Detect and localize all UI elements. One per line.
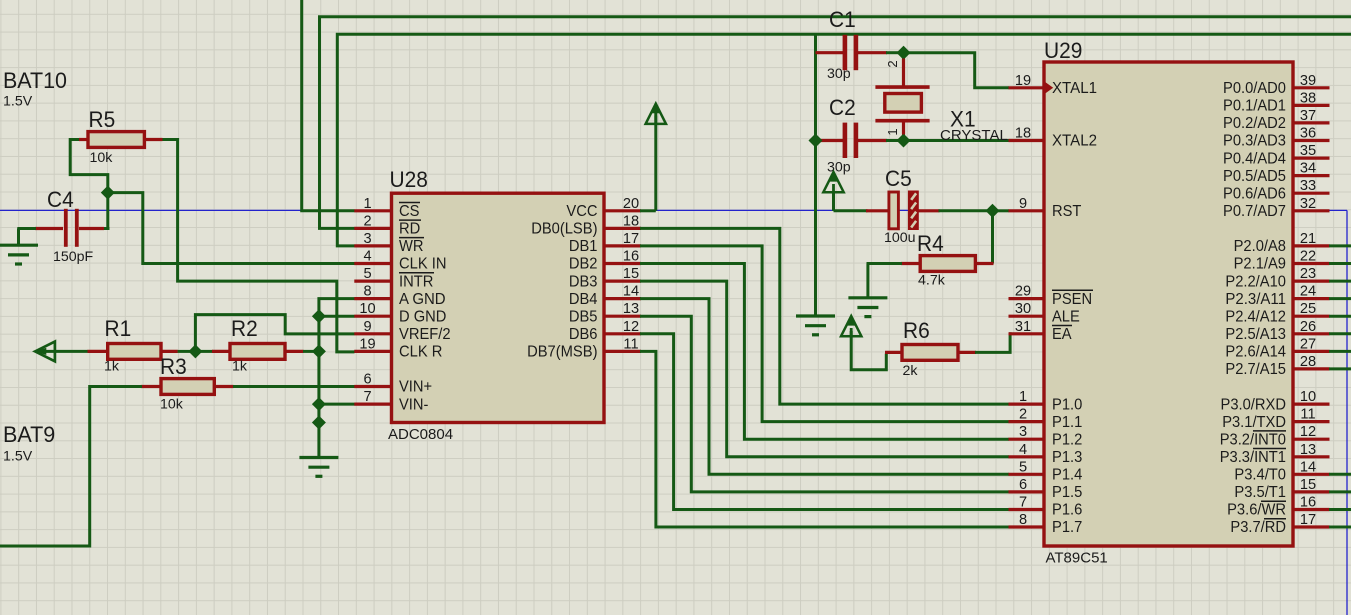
svg-text:U29: U29 <box>1044 38 1082 63</box>
U28 left pin names <box>399 203 451 414</box>
label C4 value 150pF <box>53 249 94 265</box>
svg-text:BAT10: BAT10 <box>3 68 67 93</box>
svg-text:P1.4: P1.4 <box>1052 467 1083 484</box>
svg-text:17: 17 <box>1300 512 1316 528</box>
svg-text:13: 13 <box>623 301 639 317</box>
wire C5 right to node RST <box>939 209 989 212</box>
svg-text:DB6: DB6 <box>569 326 598 343</box>
resistor R2 <box>212 344 304 360</box>
svg-text:P0.6/AD6: P0.6/AD6 <box>1223 185 1286 202</box>
svg-text:10k: 10k <box>160 397 184 413</box>
U28 right pin stubs <box>604 211 641 352</box>
svg-text:VCC: VCC <box>566 203 597 220</box>
svg-text:AT89C51: AT89C51 <box>1046 550 1108 567</box>
svg-text:3: 3 <box>363 231 371 247</box>
label C2 value 30p <box>827 160 851 176</box>
wire DB2 from U28 to U29 P1.2 <box>640 264 1009 440</box>
node D GND junction dot (318.9,316.2) <box>313 310 326 323</box>
svg-text:P1.3: P1.3 <box>1052 449 1082 466</box>
svg-text:DB3: DB3 <box>569 273 598 290</box>
svg-text:30p: 30p <box>827 160 851 176</box>
svg-text:15: 15 <box>1300 477 1316 493</box>
U29 right pin stubs <box>1293 88 1330 527</box>
svg-text:32: 32 <box>1300 196 1316 212</box>
crystal X1 <box>875 59 929 135</box>
svg-text:1: 1 <box>885 128 900 135</box>
capacitor C5 (electrolytic) <box>866 191 940 231</box>
resistor R4 <box>901 256 994 272</box>
label C1 value 30p <box>827 66 851 82</box>
label U29 part AT89C51 <box>1046 550 1108 567</box>
label BAT10 value 1.5V <box>3 94 33 110</box>
svg-text:8: 8 <box>363 284 371 300</box>
wire C2 right to node X1 (crystal bottom) <box>886 139 899 142</box>
svg-text:1k: 1k <box>232 359 248 375</box>
power arrow VCC (near U28 pin 20) <box>646 103 666 124</box>
svg-text:8: 8 <box>1019 512 1027 528</box>
ground for C1/C2 rail <box>796 316 835 335</box>
svg-text:DB0(LSB): DB0(LSB) <box>531 221 597 238</box>
wire crystal bottom pin stub <box>902 133 905 141</box>
svg-text:39: 39 <box>1300 73 1316 89</box>
svg-text:12: 12 <box>623 319 639 335</box>
IC U29 AT89C51 body <box>1044 62 1293 546</box>
svg-text:14: 14 <box>623 284 639 300</box>
svg-text:P3.4/T0: P3.4/T0 <box>1234 467 1286 484</box>
svg-text:DB5: DB5 <box>569 308 598 325</box>
svg-text:P3.7/RD: P3.7/RD <box>1230 519 1286 536</box>
svg-text:XTAL1: XTAL1 <box>1052 80 1097 97</box>
svg-text:4.7k: 4.7k <box>918 273 946 289</box>
svg-text:28: 28 <box>1300 354 1316 370</box>
wire DB4 from U28 to U29 P1.4 <box>640 299 1009 475</box>
capacitor C4 <box>35 209 104 247</box>
U29 pin 19 XTAL1 clock marker <box>1046 82 1054 93</box>
svg-text:20: 20 <box>623 196 639 212</box>
svg-text:ALE: ALE <box>1052 308 1080 325</box>
wire DB7 from U28 to U29 P1.7 <box>640 351 1009 527</box>
wire DB1 from U28 to U29 P1.1 <box>640 246 1009 422</box>
svg-text:DB1: DB1 <box>569 238 598 255</box>
IC U28 ADC0804 body <box>392 193 605 422</box>
ground for U28 rail <box>299 458 338 477</box>
svg-text:R5: R5 <box>89 107 116 132</box>
svg-text:P0.0/AD0: P0.0/AD0 <box>1223 80 1286 97</box>
capacitor C2 <box>820 123 887 158</box>
svg-text:30p: 30p <box>827 66 851 82</box>
svg-text:35: 35 <box>1300 143 1316 159</box>
wire node RST down to R4 right <box>991 214 994 264</box>
svg-text:31: 31 <box>1015 319 1031 335</box>
svg-text:10: 10 <box>1300 389 1316 405</box>
capacitor C1 <box>816 35 888 70</box>
svg-text:P0.7/AD7: P0.7/AD7 <box>1223 203 1286 220</box>
svg-text:R4: R4 <box>917 231 944 256</box>
wire node X2 to U29 pin 19 XTAL1 <box>908 53 1009 88</box>
svg-text:19: 19 <box>1015 73 1031 89</box>
svg-text:R2: R2 <box>231 316 258 341</box>
node B junction dot (195.4,351.9) <box>189 345 202 358</box>
resistor R6 <box>885 345 976 361</box>
U28 left pin stubs <box>354 211 391 404</box>
wire R6 right to U29 pin 31 EA <box>975 334 1010 353</box>
svg-text:4: 4 <box>1019 442 1027 458</box>
terminal input arrow (left) <box>35 342 88 362</box>
svg-text:18: 18 <box>1015 126 1031 142</box>
svg-text:1: 1 <box>1019 389 1027 405</box>
label BAT9 value 1.5V <box>3 449 33 465</box>
label C5 reference <box>885 166 912 191</box>
svg-text:1.5V: 1.5V <box>3 94 33 110</box>
node R2/rail junction dot (318.9,351.9) <box>313 345 326 358</box>
svg-text:P3.6/WR: P3.6/WR <box>1227 502 1286 519</box>
svg-text:100u: 100u <box>884 230 916 246</box>
node VIN- junction dot (318.9,404.1) <box>313 398 326 411</box>
svg-text:P1.0: P1.0 <box>1052 396 1083 413</box>
svg-text:P2.6/A14: P2.6/A14 <box>1225 344 1286 361</box>
U29 left pin numbers <box>1015 73 1031 528</box>
label U28 reference <box>390 167 428 192</box>
label X1 reference <box>950 107 976 132</box>
resistor R5 <box>79 132 163 148</box>
wire node X1 to U29 pin 18 XTAL2 <box>908 139 1009 142</box>
svg-text:C5: C5 <box>885 166 912 191</box>
U28 right pin names <box>527 203 598 361</box>
svg-text:7: 7 <box>1019 495 1027 511</box>
svg-text:15: 15 <box>623 266 639 282</box>
svg-text:19: 19 <box>359 336 375 352</box>
svg-text:P3.0/RXD: P3.0/RXD <box>1221 396 1287 413</box>
svg-text:30: 30 <box>1015 301 1031 317</box>
label R5 reference <box>89 107 116 132</box>
svg-text:DB2: DB2 <box>569 256 598 273</box>
wire node B to U28 pin 9 VREF/2 <box>195 315 354 351</box>
svg-text:12: 12 <box>1300 424 1316 440</box>
label R3 reference <box>160 354 187 379</box>
wires P3.4-P3.7 to right edge <box>1329 474 1351 527</box>
svg-text:R1: R1 <box>105 316 132 341</box>
label R1 value 1k <box>104 359 120 375</box>
wire U28 pin 20 VCC to power arrow <box>640 108 656 211</box>
svg-text:VIN-: VIN- <box>399 396 428 413</box>
svg-text:24: 24 <box>1300 284 1316 300</box>
label U29 reference <box>1044 38 1082 63</box>
svg-text:P1.1: P1.1 <box>1052 414 1082 431</box>
U29 left pin names <box>1052 80 1097 536</box>
svg-text:10: 10 <box>359 301 375 317</box>
label C4 reference <box>47 187 74 212</box>
label X1 pin 1 <box>885 128 900 135</box>
svg-text:22: 22 <box>1300 249 1316 265</box>
wire DB0 from U28 to U29 P1.0 <box>640 228 1009 404</box>
node A junction dot (107.8,192.6) <box>102 186 115 199</box>
svg-text:BAT9: BAT9 <box>3 422 55 447</box>
svg-text:P2.3/A11: P2.3/A11 <box>1225 291 1286 308</box>
label R2 value 1k <box>232 359 248 375</box>
power arrow (EA pull-up) <box>841 316 861 337</box>
svg-text:3: 3 <box>1019 424 1027 440</box>
svg-text:D GND: D GND <box>399 308 446 325</box>
wires P2.0-P2.7 to right edge <box>1329 246 1351 369</box>
U29 right pin names <box>1220 80 1287 536</box>
label R1 reference <box>105 316 132 341</box>
svg-text:6: 6 <box>1019 477 1027 493</box>
svg-text:10k: 10k <box>90 150 114 166</box>
svg-text:150pF: 150pF <box>53 249 94 265</box>
wire R1 right to node B <box>178 350 191 353</box>
label BAT10 reference <box>3 68 67 93</box>
svg-text:34: 34 <box>1300 161 1316 177</box>
label R6 value 2k <box>903 363 919 379</box>
svg-text:P2.2/A10: P2.2/A10 <box>1225 273 1286 290</box>
svg-text:11: 11 <box>623 336 638 352</box>
svg-text:P3.1/TXD: P3.1/TXD <box>1222 414 1286 431</box>
svg-text:RD: RD <box>399 221 420 238</box>
label C5 value 100u <box>884 230 916 246</box>
label X1 pin 2 <box>885 60 900 67</box>
wire R3 right to U28 pin 6 VIN+ <box>233 385 355 388</box>
svg-text:INTR: INTR <box>399 273 433 290</box>
wire node RST to U29 pin 9 RST <box>997 209 1009 212</box>
svg-text:P0.4/AD4: P0.4/AD4 <box>1223 150 1286 167</box>
label X1 part CRYSTAL <box>940 127 1008 144</box>
svg-text:C2: C2 <box>829 95 856 120</box>
svg-text:11: 11 <box>1300 407 1315 423</box>
svg-text:38: 38 <box>1300 90 1316 106</box>
svg-text:P2.7/A15: P2.7/A15 <box>1225 361 1286 378</box>
label BAT9 reference <box>3 422 55 447</box>
node X1 junction dot (903.5,140.5) <box>897 134 910 147</box>
label C2 reference <box>829 95 856 120</box>
svg-text:1.5V: 1.5V <box>3 449 33 465</box>
svg-text:P0.5/AD5: P0.5/AD5 <box>1223 168 1286 185</box>
svg-text:VIN+: VIN+ <box>399 379 432 396</box>
svg-text:P0.3/AD3: P0.3/AD3 <box>1223 133 1286 150</box>
wire node B to R2 left <box>199 350 213 353</box>
svg-text:R3: R3 <box>160 354 187 379</box>
svg-text:P3.3/INT1: P3.3/INT1 <box>1220 449 1286 466</box>
svg-text:PSEN: PSEN <box>1052 291 1092 308</box>
wire DB3 from U28 to U29 P1.3 <box>640 281 1009 457</box>
wire node A down to C4 right plate <box>104 194 110 229</box>
svg-text:1k: 1k <box>104 359 120 375</box>
svg-text:4: 4 <box>363 249 371 265</box>
wire C4 left to ground <box>17 229 36 245</box>
resistor R3 <box>141 379 234 395</box>
svg-text:18: 18 <box>623 213 639 229</box>
wire R5 right terminal down to U28 pin 19 CLK R <box>161 140 355 352</box>
wire net CS: top edge down to U28 pin 1 <box>302 0 355 211</box>
svg-text:P3.5/T1: P3.5/T1 <box>1234 484 1286 501</box>
svg-text:A GND: A GND <box>399 291 446 308</box>
label R2 reference <box>231 316 258 341</box>
svg-text:C1: C1 <box>829 7 856 32</box>
svg-text:5: 5 <box>363 266 371 282</box>
svg-text:P0.2/AD2: P0.2/AD2 <box>1223 115 1286 132</box>
wire net RD: line A from U28 pin 2 to right edge <box>320 17 1351 229</box>
wire R2 right to ground rail <box>303 350 315 353</box>
label U28 part ADC0804 <box>388 426 453 443</box>
svg-text:5: 5 <box>1019 459 1027 475</box>
svg-text:2: 2 <box>885 60 900 67</box>
svg-text:P0.1/AD1: P0.1/AD1 <box>1223 98 1286 115</box>
label R5 value 10k <box>90 150 114 166</box>
wire R5 left terminal to node A <box>70 140 108 191</box>
wire DB5 from U28 to U29 P1.5 <box>640 316 1009 492</box>
svg-text:7: 7 <box>363 389 371 405</box>
svg-text:17: 17 <box>623 231 639 247</box>
node X2 junction dot (903.5,52.7) <box>897 46 910 59</box>
svg-text:2: 2 <box>363 213 371 229</box>
svg-text:WR: WR <box>399 238 424 255</box>
svg-text:R6: R6 <box>903 318 930 343</box>
svg-text:VREF/2: VREF/2 <box>399 326 451 343</box>
U29 left pin stubs <box>1009 88 1045 527</box>
svg-text:26: 26 <box>1300 319 1316 335</box>
svg-text:EA: EA <box>1052 326 1072 343</box>
svg-text:6: 6 <box>363 372 371 388</box>
label R4 value 4.7k <box>918 273 946 289</box>
wire R4 left to ground <box>867 264 903 298</box>
svg-text:2: 2 <box>1019 407 1027 423</box>
svg-text:CS: CS <box>399 203 420 220</box>
svg-text:37: 37 <box>1300 108 1316 124</box>
svg-text:RST: RST <box>1052 203 1082 220</box>
node C2-left junction dot (815.5,140.5) <box>809 134 822 147</box>
wire blue pending net (right segment with corner at far right) <box>656 210 1347 615</box>
svg-text:P3.2/INT0: P3.2/INT0 <box>1220 431 1287 448</box>
svg-text:XTAL2: XTAL2 <box>1052 133 1097 150</box>
wire node A to U28 pin 4 CLK IN <box>109 193 355 264</box>
U29 right pin numbers <box>1300 73 1316 528</box>
wire C1 right to node X2 (crystal top) <box>886 51 899 54</box>
svg-text:C4: C4 <box>47 187 74 212</box>
svg-text:14: 14 <box>1300 459 1316 475</box>
svg-text:9: 9 <box>1019 196 1027 212</box>
svg-text:ADC0804: ADC0804 <box>388 426 453 443</box>
wire EA arrow to R6 left <box>851 331 886 370</box>
svg-text:9: 9 <box>363 319 371 335</box>
svg-text:DB7(MSB): DB7(MSB) <box>527 344 597 361</box>
svg-text:P2.1/A9: P2.1/A9 <box>1234 256 1286 273</box>
resistor R1 <box>88 344 178 360</box>
svg-text:16: 16 <box>623 249 639 265</box>
wire DB6 from U28 to U29 P1.6 <box>640 334 1009 510</box>
svg-text:P1.2: P1.2 <box>1052 431 1082 448</box>
U28 right pin numbers <box>623 196 639 353</box>
node RST junction dot (992.5,210.8) <box>986 205 999 218</box>
svg-text:16: 16 <box>1300 495 1316 511</box>
svg-text:P1.6: P1.6 <box>1052 502 1082 519</box>
ground for R4 <box>848 298 887 317</box>
svg-text:CLK IN: CLK IN <box>399 256 447 273</box>
wire C1/C2 ground rail (from line B down) <box>814 34 817 315</box>
wire net WR: line B from U28 pin 3 to right edge <box>337 34 1351 246</box>
svg-text:DB4: DB4 <box>569 291 598 308</box>
label R4 reference <box>917 231 944 256</box>
svg-text:13: 13 <box>1300 442 1316 458</box>
wire blue pending net (left segment) <box>0 209 301 211</box>
svg-text:1: 1 <box>363 196 371 212</box>
svg-text:36: 36 <box>1300 126 1316 142</box>
svg-text:2k: 2k <box>903 363 919 379</box>
wire ground rail (A GND / D GND / VIN- to ground) <box>319 299 355 457</box>
svg-text:P1.5: P1.5 <box>1052 484 1082 501</box>
U28 left pin numbers <box>359 196 375 405</box>
svg-text:33: 33 <box>1300 178 1316 194</box>
svg-text:27: 27 <box>1300 336 1316 352</box>
label C1 reference <box>829 7 856 32</box>
svg-text:P2.5/A13: P2.5/A13 <box>1225 326 1286 343</box>
power arrow (RST charging) <box>823 172 843 193</box>
svg-text:29: 29 <box>1015 284 1031 300</box>
svg-text:P2.4/A12: P2.4/A12 <box>1225 308 1286 325</box>
svg-text:23: 23 <box>1300 266 1316 282</box>
node junction dot (318.9,422.5) <box>313 416 326 429</box>
svg-text:P1.7: P1.7 <box>1052 519 1082 536</box>
svg-text:CRYSTAL: CRYSTAL <box>940 127 1008 144</box>
svg-text:P2.0/A8: P2.0/A8 <box>1234 238 1286 255</box>
wire R3 left to battery BAT9 <box>0 387 142 547</box>
label R6 reference <box>903 318 930 343</box>
svg-text:CLK R: CLK R <box>399 344 442 361</box>
svg-text:U28: U28 <box>390 167 428 192</box>
svg-text:21: 21 <box>1300 231 1316 247</box>
label R3 value 10k <box>160 397 184 413</box>
power arrow (RST charging) stem <box>834 192 868 211</box>
wire crystal top pin stub <box>902 53 905 60</box>
svg-text:25: 25 <box>1300 301 1316 317</box>
ground for C4 <box>0 245 38 264</box>
